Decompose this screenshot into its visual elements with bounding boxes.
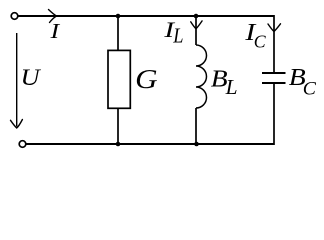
wire voltage line U (16, 33, 18, 127)
svg-text:G: G (135, 65, 157, 95)
wire C branch bottom (273, 83, 275, 145)
node junction top G (116, 14, 121, 19)
svg-text:C: C (254, 31, 267, 51)
arrowhead current I (49, 10, 57, 23)
wire G branch bottom (117, 108, 119, 144)
terminal bottom-left (19, 141, 26, 148)
svg-text:U: U (21, 65, 42, 90)
node junction top L (194, 14, 199, 19)
wire C branch top (273, 15, 275, 73)
resistor box G (108, 50, 130, 108)
wire L branch bottom (195, 108, 197, 144)
wire bottom rail (27, 143, 275, 145)
terminal top-left (11, 13, 18, 20)
svg-text:I: I (49, 20, 60, 43)
arrowhead voltage U (11, 120, 23, 129)
svg-text:C: C (303, 79, 317, 100)
inductor BL coil (196, 45, 207, 108)
svg-text:L: L (172, 26, 183, 48)
arrowhead current IC (268, 24, 281, 32)
wire top rail (19, 15, 275, 17)
arrowhead current IL (191, 21, 202, 29)
node junction bottom G (116, 142, 121, 147)
wire L branch top (195, 16, 197, 45)
wire G branch top (117, 16, 119, 50)
node junction bottom L (194, 142, 199, 147)
capacitor BC plate top (262, 72, 286, 74)
capacitor BC plate bottom (262, 82, 286, 84)
svg-text:L: L (225, 75, 238, 99)
